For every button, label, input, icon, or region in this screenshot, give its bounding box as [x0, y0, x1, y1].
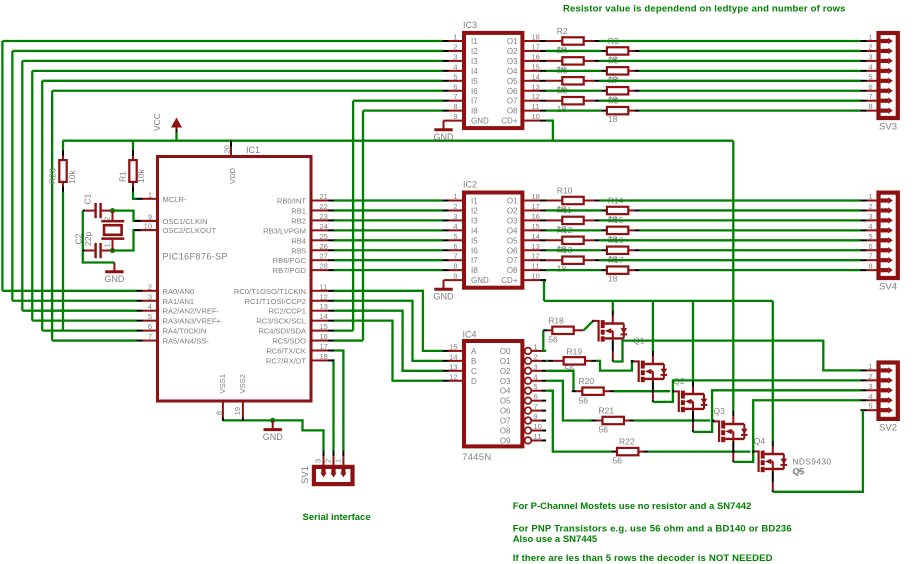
IC3 pin GND — [444, 120, 463, 122]
svg-text:I5: I5 — [471, 236, 478, 245]
IC4 pin O6 (inverted output) — [525, 407, 532, 414]
wire+resistor R8 row (left col) — [546, 100, 562, 102]
svg-text:O1: O1 — [507, 37, 518, 46]
wire IC4 O4 to R22 — [546, 391, 611, 452]
wire VCC to Q5 drain — [772, 301, 774, 441]
IC3 pin I7 — [443, 100, 449, 102]
svg-text:20: 20 — [223, 145, 232, 153]
svg-text:VSS2: VSS2 — [238, 374, 247, 393]
svg-text:3: 3 — [534, 362, 538, 371]
svg-text:27: 27 — [320, 252, 328, 261]
resistor R22 — [617, 448, 638, 455]
svg-text:O8: O8 — [507, 266, 518, 275]
IC3 pin O6 — [524, 90, 540, 92]
svg-text:10: 10 — [534, 422, 542, 431]
IC2 pin O7 — [524, 259, 540, 261]
wire net GND from VSS pins to SV1 pin3 — [223, 420, 324, 450]
svg-text:O1: O1 — [507, 197, 518, 206]
svg-text:7: 7 — [148, 332, 152, 341]
wire net RC4 to IC3 input 7 — [353, 100, 442, 102]
resistor R10 — [562, 197, 583, 204]
wire R21 to Q4 gate — [634, 419, 710, 421]
IC3 pin CD+ — [524, 120, 540, 122]
SV2 pin 2 — [861, 379, 867, 381]
IC1 pin RB7/PGD (28) — [313, 269, 329, 271]
svg-text:1: 1 — [534, 342, 538, 351]
svg-text:11: 11 — [532, 262, 540, 271]
svg-text:18: 18 — [320, 352, 328, 361]
svg-text:RC5/SDO: RC5/SDO — [272, 337, 306, 346]
svg-text:2: 2 — [103, 217, 112, 221]
IC3 pin I6 — [443, 90, 449, 92]
IC3 pin O5 — [524, 80, 540, 82]
SV4 pin 8 — [861, 269, 867, 271]
svg-text:11: 11 — [320, 282, 328, 291]
wire crystal bottom node to OSC2 — [113, 230, 137, 250]
IC2 pin I4 — [443, 229, 449, 231]
svg-text:I7: I7 — [471, 256, 478, 265]
wire IC2 CD+ to VCC rail — [544, 280, 546, 301]
wire net RA5 (IC3 input 6 wrap) — [52, 90, 442, 92]
svg-text:IC3: IC3 — [463, 20, 477, 30]
IC1 pin RC2/CCP1 (13) — [313, 310, 329, 312]
svg-text:8: 8 — [868, 102, 872, 111]
wire net RA0 (IC3 input 1 wrap) — [2, 40, 442, 42]
svg-text:6: 6 — [148, 322, 152, 331]
SV1 pin 3 — [323, 451, 325, 457]
svg-text:VDD: VDD — [228, 167, 237, 184]
svg-text:RC2/CCP1: RC2/CCP1 — [268, 307, 306, 316]
svg-text:16: 16 — [320, 332, 328, 341]
IC1 pin RC6/TX/CK (17) — [313, 350, 329, 352]
wire IC4 O2 to R20 — [546, 371, 573, 391]
SV3 pin 5 — [861, 80, 867, 82]
wire net RB2 (IC1 to IC2) — [334, 219, 443, 221]
svg-text:RB3/LVPGM: RB3/LVPGM — [263, 226, 306, 235]
ground symbol at IC1 VSS — [272, 420, 274, 429]
wire+resistor R6 row (left col) — [546, 80, 562, 82]
svg-text:8: 8 — [453, 102, 457, 111]
resistor R18 — [552, 327, 573, 334]
svg-text:O3: O3 — [507, 216, 518, 225]
wire VCC distribution rail (lower) — [544, 300, 773, 302]
svg-text:O9: O9 — [500, 436, 511, 445]
wire+resistor R9 row (right col) — [546, 110, 601, 112]
wire net RA4 (IC3 input 5 wrap) — [42, 80, 442, 82]
svg-text:O4: O4 — [507, 226, 518, 235]
svg-text:1: 1 — [453, 33, 457, 42]
wire VCC to Q2 drain — [652, 301, 654, 351]
svg-text:B: B — [471, 357, 476, 366]
svg-text:21: 21 — [320, 192, 328, 201]
IC1 pin OSC1/CLKIN (9) — [137, 220, 143, 222]
IC2 pin I2 — [443, 209, 449, 211]
IC1 pin RB1 (22) — [313, 209, 329, 211]
wire net RB1 (IC1 to IC2) — [334, 209, 443, 211]
resistor R12 — [562, 237, 583, 244]
svg-text:7: 7 — [868, 252, 872, 261]
SV1 pin 1 — [342, 451, 344, 457]
IC3 pin O3 — [524, 60, 540, 62]
svg-text:6: 6 — [453, 82, 457, 91]
resistor R13 — [562, 257, 583, 264]
IC IC4 (7445N) box — [464, 341, 522, 446]
svg-text:22: 22 — [320, 202, 328, 211]
svg-text:O3: O3 — [507, 57, 518, 66]
IC2 pin I8 — [443, 269, 449, 271]
IC1 pin RA5/AN4/SS- (7) — [137, 340, 143, 342]
wire net RC1 to IC4 B — [334, 301, 443, 361]
connector SV4 box — [879, 193, 898, 278]
svg-text:RA4/T0CKIN: RA4/T0CKIN — [163, 327, 207, 336]
wire Q1 source to SV2 pin1 — [613, 341, 861, 371]
svg-text:9: 9 — [453, 112, 457, 121]
svg-text:CD+: CD+ — [501, 117, 518, 126]
IC2 pin I1 — [443, 200, 449, 202]
IC1 pin RB0/INT (21) — [313, 200, 329, 202]
wire net RB6 (IC1 to IC2) — [334, 259, 443, 261]
svg-text:7445N: 7445N — [462, 452, 492, 463]
svg-text:8: 8 — [868, 262, 872, 271]
svg-text:3: 3 — [148, 292, 152, 301]
svg-text:I2: I2 — [471, 206, 478, 215]
wire+resistor R11 row (left col) — [546, 219, 562, 221]
svg-text:O8: O8 — [500, 427, 511, 436]
svg-text:I8: I8 — [471, 266, 478, 275]
svg-text:O5: O5 — [507, 77, 518, 86]
IC2 pin I7 — [443, 259, 449, 261]
junction crystal bottom node — [110, 248, 115, 253]
wire+resistor R7 row (right col) — [546, 90, 601, 92]
wire+resistor R12 row (left col) — [546, 239, 562, 241]
svg-text:16: 16 — [532, 212, 540, 221]
svg-text:13: 13 — [449, 362, 457, 371]
svg-text:RB0/INT: RB0/INT — [277, 197, 306, 206]
svg-text:3: 3 — [314, 459, 323, 463]
svg-text:R2: R2 — [557, 26, 568, 36]
wire IC4 O1 to R19 — [546, 360, 548, 362]
svg-text:OSC1/CLKIN: OSC1/CLKIN — [163, 217, 208, 226]
IC1 pin RB2 (23) — [313, 219, 329, 221]
resistor R14 — [607, 207, 628, 214]
svg-text:RB4: RB4 — [291, 236, 306, 245]
svg-text:4: 4 — [453, 62, 457, 71]
svg-text:12: 12 — [532, 252, 540, 261]
SV2 pin 4 — [861, 399, 867, 401]
svg-text:I4: I4 — [471, 67, 478, 76]
wire VCC to Q1 drain — [612, 301, 614, 311]
wire IC4 O3 to R21 — [546, 381, 591, 421]
svg-text:SV2: SV2 — [879, 423, 897, 434]
wire R1 to MCLR — [133, 192, 137, 199]
svg-text:GND: GND — [434, 132, 455, 142]
svg-text:18: 18 — [532, 192, 540, 201]
svg-text:RA0/AN0: RA0/AN0 — [163, 287, 195, 296]
IC2 pin CD+ — [524, 279, 540, 281]
svg-text:For PNP Transistors e.g. use 5: For PNP Transistors e.g. use 56 ohm and … — [513, 524, 792, 535]
IC3 pin I2 — [443, 50, 449, 52]
svg-text:O5: O5 — [507, 236, 518, 245]
resistor R2 — [562, 37, 583, 44]
resistor R3 — [607, 47, 628, 54]
svg-text:7: 7 — [868, 92, 872, 101]
SV2 pin 1 — [861, 369, 867, 371]
IC1 pin RA2/AN2/VREF- (4) — [137, 310, 143, 312]
svg-text:7: 7 — [534, 402, 538, 411]
svg-text:13: 13 — [532, 242, 540, 251]
svg-text:O4: O4 — [507, 67, 518, 76]
IC1 pin OSC2/CLKOUT (10) — [137, 229, 143, 231]
capacitor C2 — [83, 250, 85, 252]
svg-text:R18: R18 — [548, 316, 564, 326]
IC4 pin O8 (inverted output) — [525, 427, 532, 434]
resistor R21 — [603, 417, 624, 424]
svg-text:R1: R1 — [118, 171, 128, 182]
wire Q4 source to SV2 pin4 — [733, 400, 860, 462]
IC1 pin RA1/AN1 (3) — [137, 300, 143, 302]
svg-text:10: 10 — [532, 112, 540, 121]
resistor R19 — [564, 357, 585, 364]
svg-text:10: 10 — [532, 272, 540, 281]
IC1 pin RC0/T1OSO/T1CKIN (11) — [313, 290, 329, 292]
SV2 pin 5 — [861, 409, 867, 411]
resistor R4 — [562, 57, 583, 64]
svg-text:1: 1 — [868, 192, 872, 201]
SV3 pin 6 — [861, 90, 867, 92]
wire+resistor R17 row (right col) — [546, 269, 601, 271]
svg-text:RB7/PGD: RB7/PGD — [273, 266, 307, 275]
IC2 pin O4 — [524, 229, 540, 231]
SV3 pin 4 — [861, 70, 867, 72]
svg-text:SV1: SV1 — [300, 466, 311, 484]
resistor R23 10k pullup — [62, 141, 64, 150]
IC4 pin O5 (inverted output) — [525, 397, 532, 404]
svg-text:5: 5 — [868, 232, 872, 241]
IC2 pin I6 — [443, 249, 449, 251]
connector SV1 box — [314, 467, 353, 484]
svg-text:10k: 10k — [136, 169, 146, 183]
svg-text:O6: O6 — [507, 87, 518, 96]
svg-text:18: 18 — [608, 274, 618, 284]
svg-text:16: 16 — [532, 52, 540, 61]
wire Q5 source to SV2 pin5 — [773, 410, 863, 492]
wire IC4 O0 to R18 — [543, 330, 546, 351]
wire crystal top node to OSC1 — [113, 211, 137, 221]
svg-text:3: 3 — [453, 212, 457, 221]
ground symbol at IC2 — [443, 280, 445, 289]
svg-text:12: 12 — [449, 372, 457, 381]
junction GND net — [270, 418, 275, 423]
svg-text:15: 15 — [532, 62, 540, 71]
wire R22 to Q5 gate — [648, 450, 750, 452]
SV4 pin 6 — [861, 249, 867, 251]
IC3 pin O7 — [524, 100, 540, 102]
transistor Q3 (P-MOSFET) — [673, 381, 708, 432]
svg-text:6: 6 — [534, 392, 538, 401]
svg-text:O5: O5 — [500, 397, 511, 406]
svg-text:17: 17 — [532, 42, 540, 51]
IC3 pin O2 — [524, 50, 540, 52]
svg-text:4: 4 — [868, 62, 872, 71]
IC1 pin RC4/SDI/SDA (15) — [313, 330, 329, 332]
wire+resistor R10 row (left col) — [546, 200, 562, 202]
svg-text:5: 5 — [868, 402, 872, 411]
svg-text:I3: I3 — [471, 216, 478, 225]
svg-text:3: 3 — [868, 382, 872, 391]
svg-text:14: 14 — [532, 232, 540, 241]
svg-text:O6: O6 — [507, 246, 518, 255]
junction crystal top node — [110, 208, 115, 213]
wire VCC to Q3 drain — [692, 301, 694, 381]
svg-text:SV4: SV4 — [879, 282, 897, 293]
svg-text:RB1: RB1 — [291, 206, 306, 215]
transistor Q1 (P-MOSFET) — [592, 311, 627, 362]
svg-text:O8: O8 — [507, 107, 518, 116]
svg-text:RC1/T1OSI/CCP2: RC1/T1OSI/CCP2 — [244, 297, 306, 306]
svg-text:I6: I6 — [471, 246, 478, 255]
svg-text:A: A — [471, 347, 477, 356]
svg-text:15: 15 — [449, 342, 457, 351]
svg-text:1: 1 — [868, 362, 872, 371]
svg-text:6: 6 — [868, 82, 872, 91]
wire net VCC rail — [63, 140, 734, 142]
svg-text:R21: R21 — [599, 406, 615, 416]
svg-text:O0: O0 — [500, 347, 511, 356]
wire Q2 source to SV2 pin2 — [653, 380, 861, 402]
wire net RB0 (IC1 to IC2) — [334, 199, 443, 201]
svg-text:2: 2 — [868, 372, 872, 381]
svg-text:RA1/AN1: RA1/AN1 — [163, 297, 195, 306]
IC4 pin O9 (inverted output) — [525, 437, 532, 444]
svg-text:RC7/RX/DT: RC7/RX/DT — [266, 356, 306, 365]
SV4 pin 5 — [861, 239, 867, 241]
svg-text:O2: O2 — [500, 367, 511, 376]
IC IC3 box — [464, 33, 522, 128]
wire IC3 CD+ to VCC rail — [546, 121, 553, 141]
IC IC1 (PIC16F876-SP) box — [158, 157, 312, 402]
svg-text:24: 24 — [320, 222, 328, 231]
svg-text:5: 5 — [453, 232, 457, 241]
svg-text:26: 26 — [320, 242, 328, 251]
wire+resistor R4 row (left col) — [546, 60, 562, 62]
wire net RC2 to IC4 C — [334, 311, 443, 371]
svg-text:O3: O3 — [500, 377, 511, 386]
svg-text:O6: O6 — [500, 407, 511, 416]
ground symbol at crystal — [113, 263, 115, 272]
IC2 pin O6 — [524, 249, 540, 251]
svg-text:25: 25 — [320, 232, 328, 241]
IC4 pin O7 (inverted output) — [525, 417, 532, 424]
SV3 pin 8 — [861, 110, 867, 112]
IC1 pin RB6/PGC (27) — [313, 259, 329, 261]
SV3 pin 2 — [861, 50, 867, 52]
transistor Q4 (P-MOSFET) — [713, 411, 748, 462]
wire net RC7/RX to SV1 pin2 — [333, 360, 334, 450]
svg-text:C2: C2 — [74, 233, 84, 244]
svg-text:14: 14 — [532, 72, 540, 81]
svg-text:4: 4 — [868, 392, 872, 401]
IC1 pin RA4/T0CKIN (6) — [137, 330, 143, 332]
IC1 pin VSS2 (19) — [242, 403, 244, 418]
IC4 pin A — [443, 350, 449, 352]
IC4 pin O1 (inverted output) — [525, 358, 532, 365]
SV4 pin 1 — [861, 200, 867, 202]
svg-text:3: 3 — [868, 52, 872, 61]
svg-text:O2: O2 — [507, 47, 518, 56]
svg-text:5: 5 — [868, 72, 872, 81]
svg-text:I1: I1 — [471, 197, 478, 206]
resistor R7 — [607, 87, 628, 94]
svg-text:2: 2 — [324, 459, 333, 463]
svg-text:GND: GND — [434, 292, 455, 302]
resistor R20 — [582, 388, 603, 395]
svg-text:R20: R20 — [579, 376, 595, 386]
IC4 pin O2 (inverted output) — [525, 368, 532, 375]
svg-text:7: 7 — [453, 92, 457, 101]
SV4 pin 3 — [861, 219, 867, 221]
svg-text:2: 2 — [534, 352, 538, 361]
wire net RC0 to IC4 A — [334, 291, 443, 351]
svg-text:GND: GND — [471, 117, 489, 126]
svg-text:6: 6 — [453, 242, 457, 251]
wire net RC5 to IC3 input 8 — [363, 110, 443, 112]
SV4 pin 4 — [861, 229, 867, 231]
svg-text:6: 6 — [868, 242, 872, 251]
svg-text:1: 1 — [103, 243, 112, 247]
svg-text:RC6/TX/CK: RC6/TX/CK — [266, 347, 306, 356]
svg-text:RB2: RB2 — [291, 216, 306, 225]
connector SV2 box — [879, 363, 898, 419]
IC1 pin RC1/T1OSI/CCP2 (12) — [313, 300, 329, 302]
svg-text:56: 56 — [599, 425, 609, 435]
resistor R8 — [562, 97, 583, 104]
svg-text:56: 56 — [613, 456, 623, 466]
svg-text:18: 18 — [532, 33, 540, 42]
svg-text:23: 23 — [320, 212, 328, 221]
wire R20 to Q3 gate — [614, 390, 670, 392]
svg-text:15: 15 — [320, 322, 328, 331]
wire net RB5 (IC1 to IC2) — [334, 249, 443, 251]
svg-text:RA3/AN3/VREF+: RA3/AN3/VREF+ — [163, 317, 222, 326]
IC3 pin I5 — [443, 80, 449, 82]
IC1 pin RB5 (26) — [313, 249, 329, 251]
IC4 pin B — [443, 360, 449, 362]
IC3 pin I1 — [443, 40, 449, 42]
svg-text:Serial interface: Serial interface — [303, 512, 371, 523]
svg-text:8: 8 — [453, 262, 457, 271]
wire Q3 source to SV2 pin3 — [693, 390, 861, 432]
IC3 pin I8 — [443, 110, 449, 112]
svg-text:I7: I7 — [471, 97, 478, 106]
IC1 pin RB3/LVPGM (24) — [313, 229, 329, 231]
svg-text:I3: I3 — [471, 57, 478, 66]
transistor Q2 (P-MOSFET) — [632, 351, 667, 402]
wire R18 to Q1 gate (diagonal) — [584, 321, 593, 330]
wire net RB7 (IC1 to IC2) — [334, 269, 443, 271]
resistor R6 — [562, 77, 583, 84]
SV2 pin 3 — [861, 389, 867, 391]
resistor R9 — [607, 107, 628, 114]
svg-text:13: 13 — [320, 302, 328, 311]
svg-text:RC3/SCK/SCL: RC3/SCK/SCL — [256, 317, 306, 326]
IC2 pin O1 — [524, 200, 540, 202]
svg-text:18: 18 — [608, 114, 618, 124]
wire net RB4 (IC1 to IC2) — [334, 239, 443, 241]
wire+resistor R16 row (right col) — [546, 249, 601, 251]
svg-text:9: 9 — [534, 412, 538, 421]
IC3 pin I4 — [443, 70, 449, 72]
svg-text:Q5: Q5 — [792, 466, 804, 476]
